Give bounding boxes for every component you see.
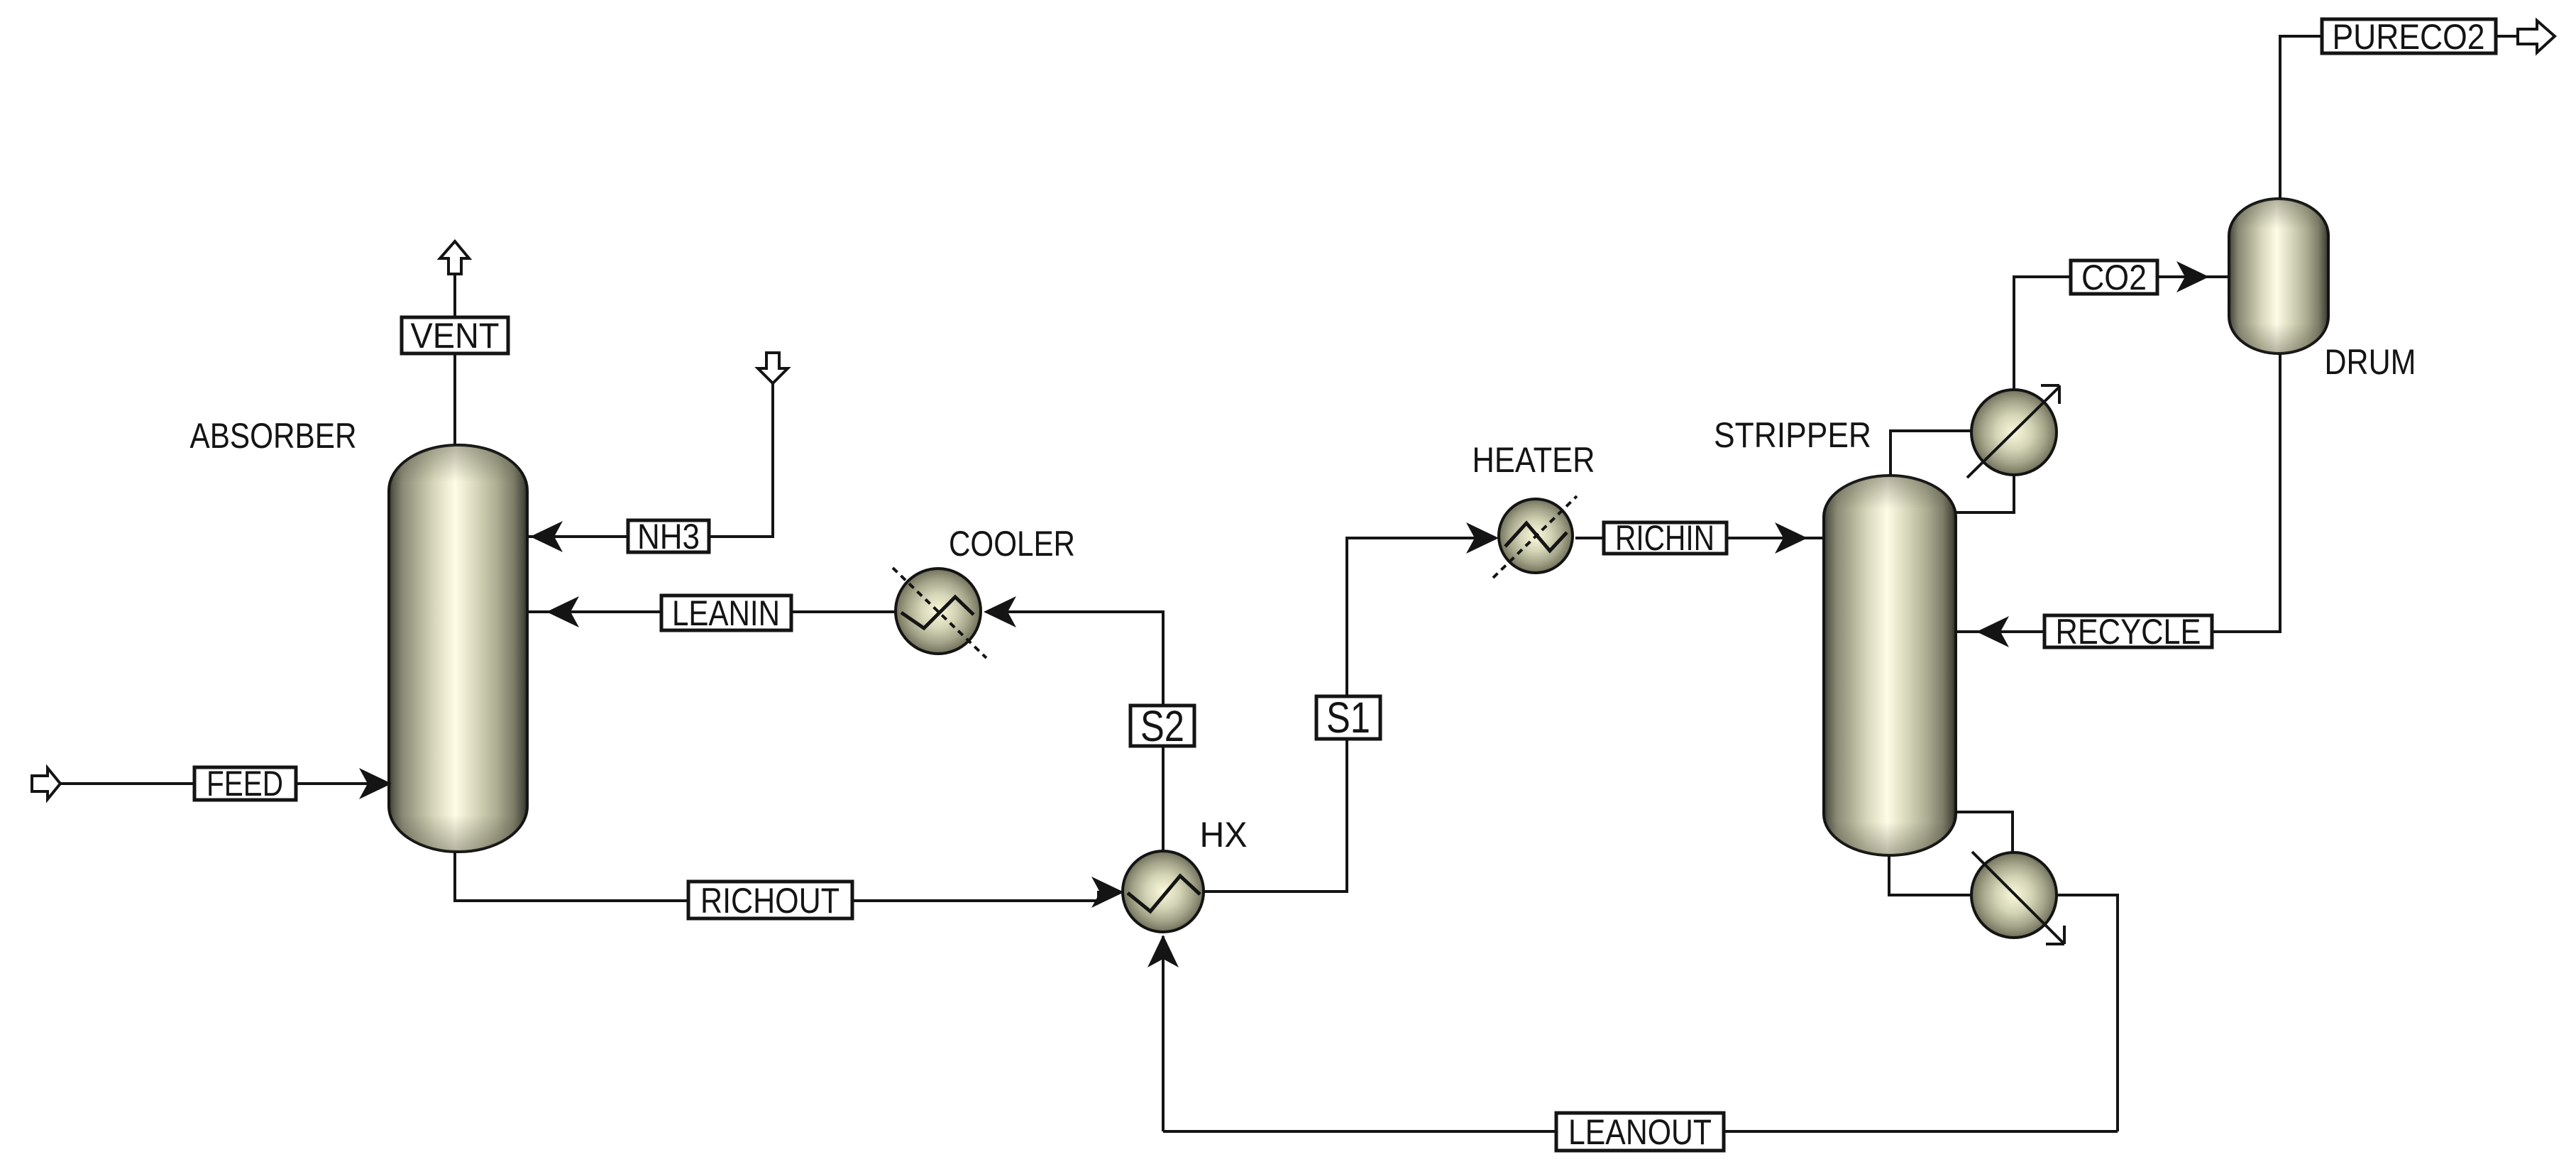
stream label box S1: [1316, 693, 1380, 742]
svg-text:COOLER: COOLER: [949, 524, 1075, 564]
svg-text:S1: S1: [1326, 693, 1370, 742]
hollow inlet arrow FEED: [32, 768, 60, 799]
svg-text:STRIPPER: STRIPPER: [1714, 415, 1871, 455]
arrowhead RICHIN into stripper: [1775, 522, 1807, 554]
arrowhead FEED into absorber: [359, 768, 392, 799]
absorber ABSORBER: [389, 445, 527, 852]
wire RICHOUT: [455, 852, 1121, 901]
stream label box VENT: [402, 316, 508, 356]
wire CO2: [2014, 277, 2229, 390]
svg-text:LEANIN: LEANIN: [672, 593, 780, 633]
arrowhead RECYCLE into stripper: [1976, 616, 2009, 647]
wire LEANIN: [527, 610, 896, 613]
svg-text:HX: HX: [1200, 815, 1248, 855]
stream label box LEANOUT: [1556, 1112, 1724, 1152]
wire reboiler outlet: [2057, 895, 2118, 1131]
wire column bottom to reboiler: [1889, 855, 1971, 895]
svg-text:LEANOUT: LEANOUT: [1568, 1112, 1712, 1152]
svg-text:PURECO2: PURECO2: [2333, 17, 2485, 57]
stream label box RICHIN: [1604, 518, 1727, 558]
wire S1 HX to heater: [1204, 538, 1496, 892]
column STRIPPER: [1824, 476, 1956, 855]
svg-text:FEED: FEED: [207, 764, 283, 803]
svg-text:S2: S2: [1140, 702, 1184, 750]
wire stripper top to condenser: [1890, 431, 1973, 477]
stream label box PURECO2: [2322, 17, 2496, 57]
hollow outlet arrow VENT top: [440, 241, 469, 274]
arrowhead LEANIN into absorber: [546, 596, 579, 627]
wire NH3: [527, 383, 773, 537]
stream label box RICHOUT: [688, 881, 852, 921]
svg-text:ABSORBER: ABSORBER: [190, 416, 357, 456]
stream label box S2: [1130, 702, 1194, 750]
arrowhead RICHOUT into HX: [1091, 877, 1124, 908]
svg-text:VENT: VENT: [411, 316, 500, 356]
wire LEANOUT horizontal: [1163, 1130, 2118, 1133]
wire PURECO2 outlet: [2496, 35, 2518, 38]
hollow outlet arrow PURECO2: [2518, 21, 2555, 53]
svg-text:DRUM: DRUM: [2325, 342, 2416, 382]
wire S2 cooler to HX: [986, 612, 1163, 851]
svg-text:CO2: CO2: [2081, 258, 2147, 297]
svg-text:RECYCLE: RECYCLE: [2056, 612, 2201, 652]
wire VENT riser: [453, 274, 456, 446]
arrowhead CO2 into drum: [2176, 261, 2209, 292]
stream label box LEANIN: [661, 593, 791, 633]
reboiler circle: [1971, 852, 2064, 944]
svg-text:RICHIN: RICHIN: [1615, 518, 1714, 558]
arrowhead S1 into heater: [1466, 522, 1499, 554]
wire drum bottom RECYCLE: [1956, 353, 2280, 632]
stream label box RECYCLE: [2044, 612, 2212, 652]
wire drum top to PURECO2: [2280, 36, 2322, 199]
heat exchanger HEATER: [1493, 496, 1577, 578]
heat exchanger COOLER: [893, 568, 986, 658]
stream label box CO2: [2071, 258, 2157, 297]
stream label box NH3: [628, 517, 709, 556]
arrowhead LEANOUT up into HX: [1147, 935, 1179, 967]
vessel DRUM: [2229, 199, 2328, 353]
hollow inlet arrow NH3 top: [758, 353, 788, 383]
heat exchanger HX: [1123, 851, 1204, 932]
wire reboiler inlet from column side: [1953, 812, 2013, 853]
arrowhead NH3 into absorber: [530, 521, 563, 552]
condenser circle: [1967, 385, 2059, 478]
wire LEANOUT to HX: [1162, 936, 1165, 1131]
svg-text:HEATER: HEATER: [1473, 440, 1595, 480]
svg-text:RICHOUT: RICHOUT: [700, 881, 840, 921]
wire RICHIN: [1575, 537, 1824, 539]
svg-text:NH3: NH3: [637, 517, 700, 556]
wire FEED: [60, 782, 389, 785]
arrowhead S2 into cooler: [984, 596, 1016, 627]
stream label box FEED: [194, 764, 296, 803]
wire condenser reflux return: [1956, 475, 2014, 512]
